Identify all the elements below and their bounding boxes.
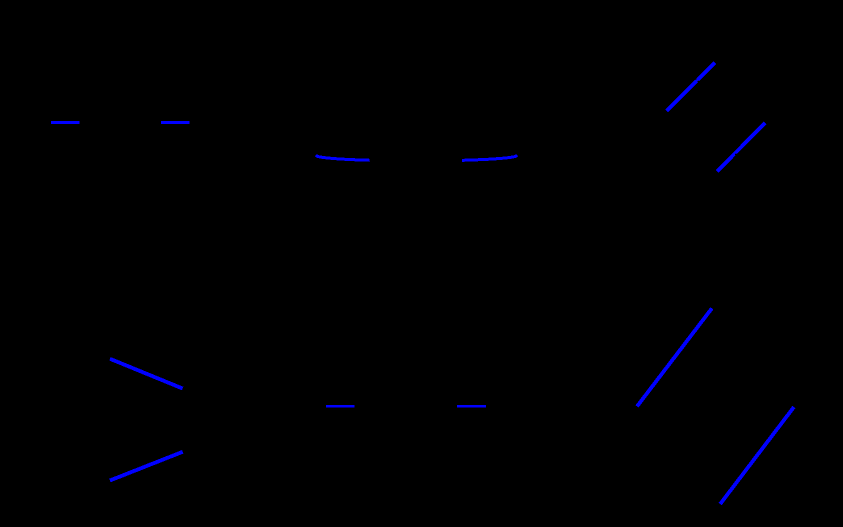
- ray H (bottom-left lower converging ray): [110, 452, 183, 481]
- black cover over arc middle (hidden section of arc): [370, 144, 462, 170]
- axis dash A2 (top-left optical axis, right dash): [161, 121, 190, 124]
- ray F (bottom-right steep ray): [720, 407, 794, 504]
- ray E (middle-right steep ray): [637, 308, 712, 406]
- axis dash I1 (bottom optical axis, left dash): [326, 405, 355, 408]
- axis dash A1 (top-left optical axis, left dash): [51, 121, 80, 124]
- ray G (bottom-left upper converging ray): [110, 359, 183, 389]
- axis dash I2 (bottom optical axis, right dash): [457, 405, 486, 408]
- wavefront arc B left tip stub: [316, 154, 318, 157]
- arrow notch on ray D (lower edge bite): [735, 153, 737, 155]
- wavefront arc B (top-middle curved wavefront): [316, 156, 517, 161]
- arrow notch on ray C (upper edge bite): [695, 78, 697, 80]
- ray D (top-right upper ray, 45 deg): [717, 123, 765, 172]
- wavefront arc B right tip stub: [515, 154, 517, 157]
- arrow notch on ray C (lower edge bite): [697, 80, 699, 82]
- arrow notch on ray D (upper edge bite): [732, 150, 734, 152]
- ray C (top-right lower ray, 45 deg): [667, 63, 715, 111]
